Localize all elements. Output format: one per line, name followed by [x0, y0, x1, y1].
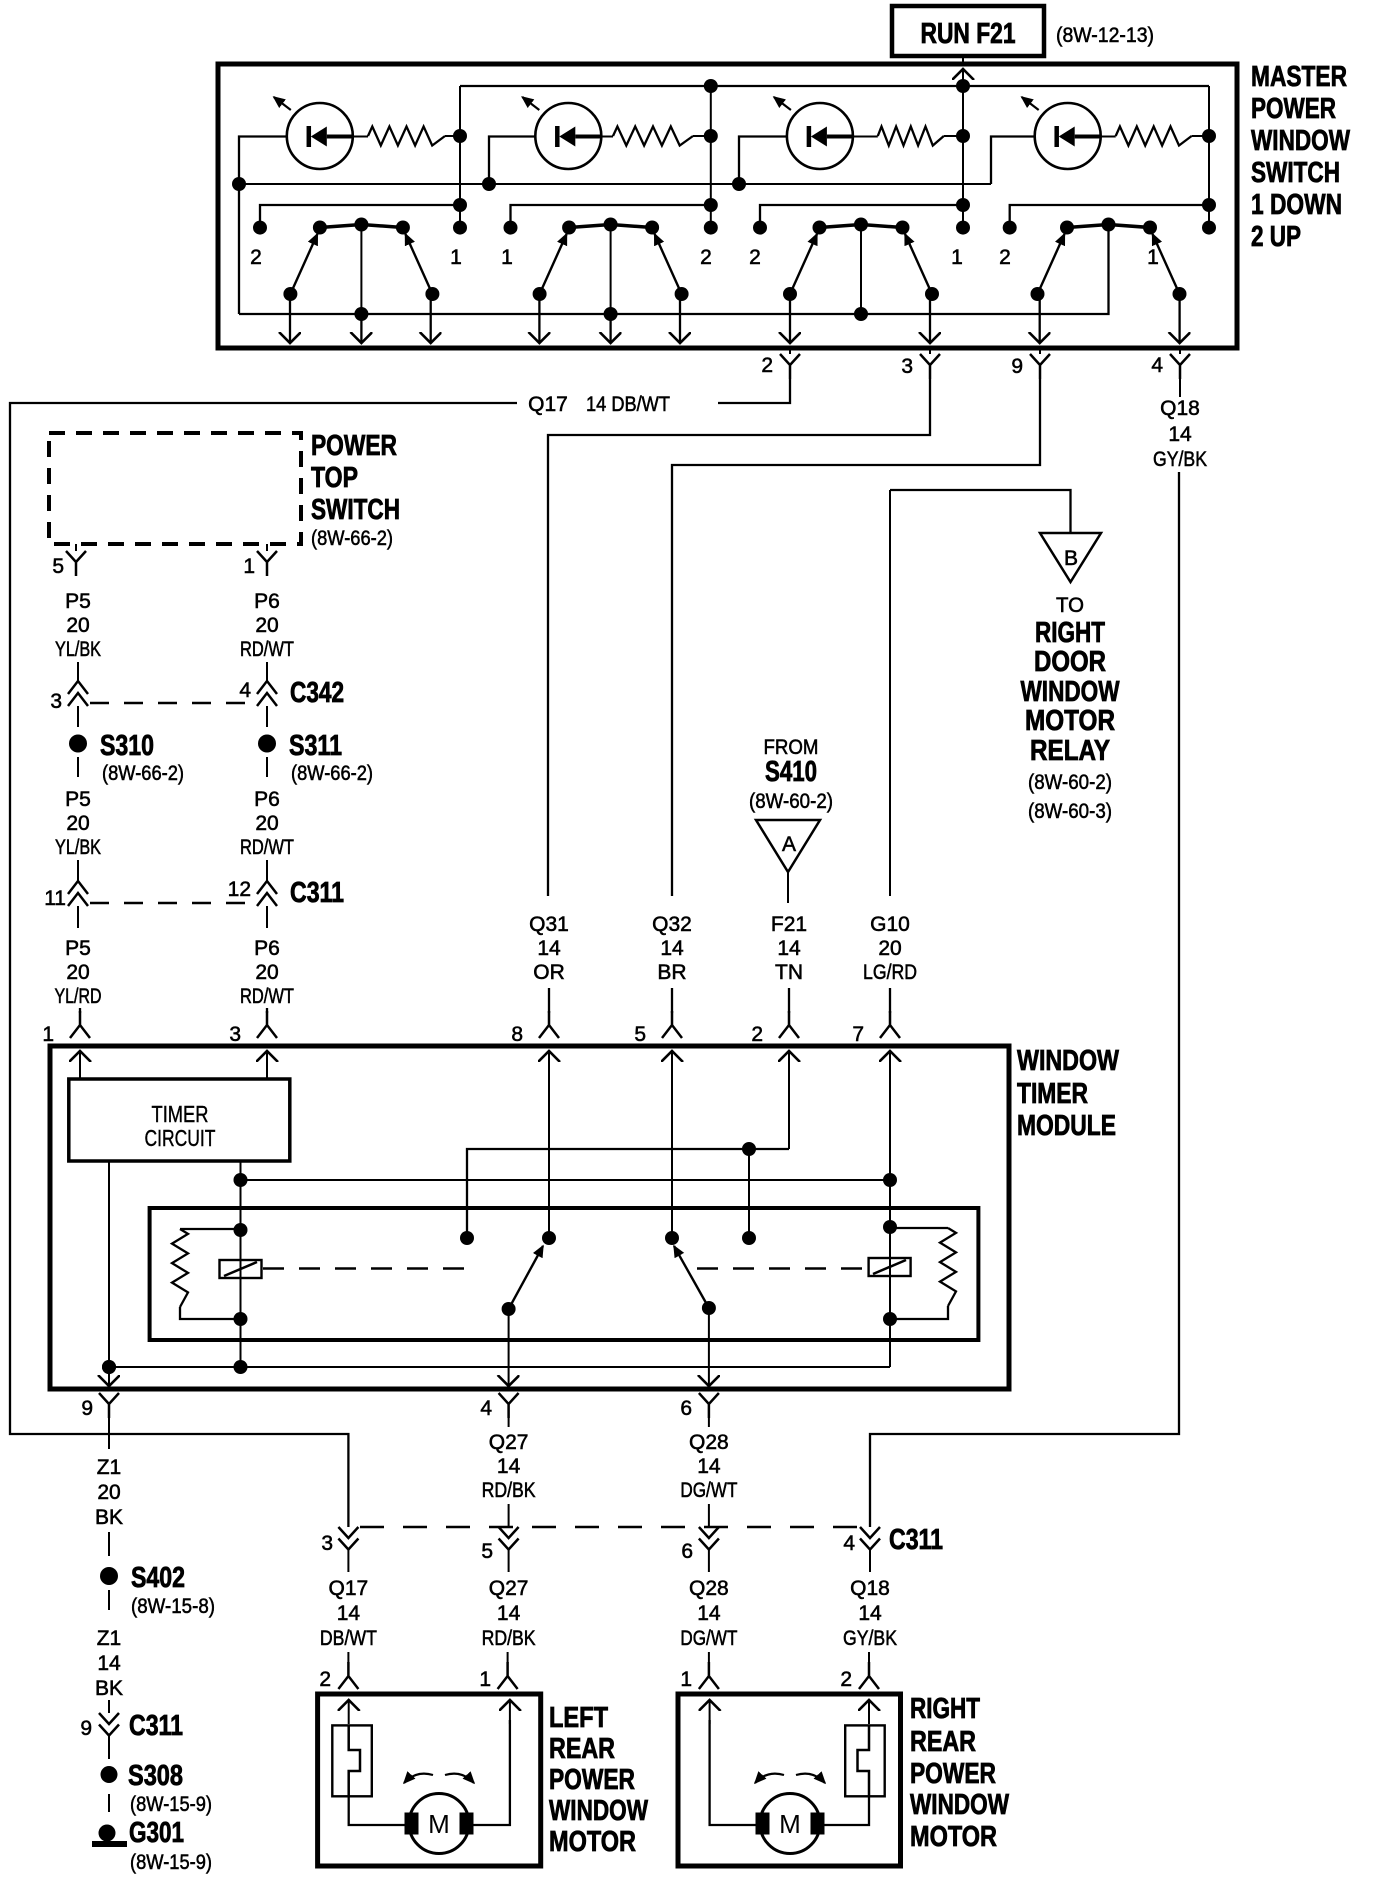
switch S1 centre wire: [360, 225, 362, 315]
wire Q18 down right side: [870, 472, 1179, 1527]
relay K1 switch pole: [502, 1302, 516, 1316]
wire Q32 from pin 9: [672, 379, 1040, 896]
junction: [956, 129, 970, 143]
svg-text:14: 14: [697, 1602, 721, 1625]
LED L1 indicator lamp: [287, 103, 353, 169]
wire Q17 to left margin: [10, 403, 517, 1527]
wire G10 drop: [889, 490, 891, 896]
LED L4 arrow: [1022, 97, 1039, 110]
fuse feed box RUN F21: [892, 6, 1044, 56]
svg-text:2 UP: 2 UP: [1251, 221, 1301, 253]
arrow into motor pin 1: [709, 1700, 711, 1724]
relay K2 switch pole: [702, 1301, 716, 1315]
svg-text:C311: C311: [290, 877, 344, 909]
junction: [234, 1223, 248, 1237]
wire LED4 left drop: [991, 137, 1035, 185]
wire module pin 6 output: [708, 1308, 710, 1386]
svg-text:3: 3: [229, 1023, 241, 1046]
wire LED return bus: [239, 183, 991, 185]
junction: [742, 1142, 756, 1156]
window lift drive symbol: [332, 1725, 372, 1796]
svg-text:RD/WT: RD/WT: [240, 985, 294, 1008]
wire P5 below C311: [77, 906, 79, 928]
svg-text:4: 4: [843, 1532, 855, 1555]
svg-text:1 DOWN: 1 DOWN: [1251, 189, 1342, 221]
svg-text:CIRCUIT: CIRCUIT: [145, 1125, 216, 1151]
wire connector C311 mate (dashed): [360, 1526, 858, 1528]
svg-text:20: 20: [66, 961, 89, 984]
junction: [482, 177, 496, 191]
wire P6 below C311: [266, 906, 268, 928]
wire resistor to feed: [944, 135, 963, 137]
wire feed vertical cell3 RUN F21: [962, 86, 964, 228]
svg-text:P5: P5: [65, 788, 91, 811]
svg-text:TIMER: TIMER: [1017, 1078, 1088, 1110]
output arrow cell2 left: [538, 294, 540, 343]
svg-text:RUN F21: RUN F21: [921, 18, 1016, 50]
wire Z1: [108, 1700, 110, 1713]
svg-text:F21: F21: [771, 913, 807, 936]
svg-text:DOOR: DOOR: [1034, 646, 1106, 678]
wire pin1 to motor M2: [710, 1720, 756, 1825]
splice S311: [258, 735, 276, 753]
junction: [102, 1360, 116, 1374]
svg-text:MODULE: MODULE: [1017, 1110, 1116, 1142]
svg-text:(8W-60-2): (8W-60-2): [749, 790, 833, 813]
svg-text:WINDOW: WINDOW: [1021, 676, 1120, 708]
wire P5: [77, 860, 79, 881]
svg-text:5: 5: [52, 555, 64, 578]
wire to motor M2: [824, 1796, 869, 1825]
contact 2 cell1: [253, 221, 267, 235]
connector pin 8 of timer module: [539, 1011, 559, 1038]
wire P5 below C342: [77, 706, 79, 727]
svg-text:G301: G301: [129, 1817, 184, 1849]
svg-text:REAR: REAR: [549, 1733, 615, 1765]
svg-text:2: 2: [761, 354, 773, 377]
window timer module box: [50, 1046, 1009, 1389]
arrow into motor pin 1: [509, 1700, 511, 1724]
wire switch common bus: [239, 225, 1109, 315]
label circuit P6 20 RD/WT: [240, 590, 294, 661]
connector pin 7 of timer module: [880, 1011, 900, 1038]
svg-text:20: 20: [878, 937, 901, 960]
svg-text:Q17: Q17: [329, 1577, 369, 1600]
wire below S308: [108, 1794, 110, 1812]
wire to module pin: [671, 988, 673, 1013]
junction: [234, 1360, 248, 1374]
svg-text:GY/BK: GY/BK: [1153, 448, 1207, 471]
svg-text:Z1: Z1: [97, 1456, 122, 1479]
svg-text:9: 9: [1011, 355, 1023, 378]
power top switch box (dashed): [49, 433, 301, 544]
wire pin1 to motor M1: [474, 1720, 510, 1825]
connector pin 5 of timer module: [662, 1011, 682, 1038]
splice S310: [69, 735, 87, 753]
svg-text:REAR: REAR: [910, 1726, 976, 1758]
switch S3 right pole: [925, 287, 939, 301]
LED L4 indicator lamp: [1035, 103, 1101, 169]
svg-text:(8W-15-8): (8W-15-8): [131, 1595, 215, 1618]
switch S1 right pole: [425, 287, 439, 301]
svg-text:6: 6: [681, 1540, 693, 1563]
switch S2 left arm: [540, 234, 567, 294]
svg-text:GY/BK: GY/BK: [843, 1627, 897, 1650]
wire resistor to coil bottom: [890, 1306, 948, 1319]
svg-text:14: 14: [1168, 423, 1192, 446]
svg-text:(8W-15-9): (8W-15-9): [130, 1793, 212, 1816]
splice S308: [101, 1766, 118, 1783]
wire Q28 from module pin 6: [708, 1418, 710, 1427]
label circuit Q28 14 DG/WT: [680, 1577, 737, 1650]
svg-text:14: 14: [777, 937, 801, 960]
contact node: [542, 1231, 556, 1245]
svg-text:BK: BK: [95, 1506, 123, 1529]
wire LED to resistor: [853, 136, 878, 138]
svg-text:(8W-15-9): (8W-15-9): [130, 1851, 212, 1874]
svg-text:TIMER: TIMER: [152, 1101, 209, 1127]
timer circuit box: [69, 1079, 290, 1161]
junction: [704, 129, 718, 143]
rotation arrow right: [445, 1774, 474, 1783]
svg-text:2: 2: [751, 1023, 763, 1046]
relay K2 actuation link (dashed): [697, 1267, 867, 1269]
wire resistor to feed: [1192, 135, 1209, 137]
svg-text:(8W-60-2): (8W-60-2): [1028, 771, 1112, 794]
svg-text:(8W-60-3): (8W-60-3): [1028, 800, 1112, 823]
arrow into module pin 1: [79, 1051, 81, 1079]
wire contact feed cell2: [511, 205, 711, 227]
svg-text:OR: OR: [533, 961, 565, 984]
svg-text:B: B: [1064, 547, 1078, 570]
svg-text:20: 20: [66, 812, 89, 835]
relay K1 switch arm: [509, 1246, 543, 1309]
svg-text:RD/WT: RD/WT: [240, 836, 294, 859]
wire contact feed cell4: [1010, 205, 1209, 227]
svg-text:P6: P6: [254, 788, 280, 811]
svg-text:7: 7: [852, 1023, 864, 1046]
svg-text:TN: TN: [775, 961, 803, 984]
svg-text:S311: S311: [289, 730, 342, 762]
LED L1 arrow: [274, 97, 291, 110]
label MASTER POWER WINDOW SWITCH 1 DOWN 2 UP: [1251, 61, 1350, 253]
connector pin 1 of left motor: [507, 1652, 509, 1663]
svg-text:1: 1: [42, 1023, 54, 1046]
svg-text:(8W-12-13): (8W-12-13): [1056, 24, 1154, 47]
connector pin 3 of master switch: [929, 347, 931, 354]
svg-text:RD/BK: RD/BK: [482, 1627, 536, 1650]
svg-text:4: 4: [480, 1397, 492, 1420]
window lift drive symbol: [845, 1725, 885, 1796]
connector C342 pin 4: [257, 681, 277, 694]
wire to module pin: [889, 988, 891, 1013]
junction: [453, 198, 467, 212]
wire module pin 8 to switch contact: [548, 1051, 550, 1238]
connector C311 pin 11: [68, 881, 88, 894]
svg-text:20: 20: [97, 1481, 120, 1504]
wire P6 below C342: [266, 706, 268, 727]
junction on common bus: [354, 307, 368, 321]
connector C311 pin 6: [699, 1527, 719, 1538]
junction on common bus: [854, 307, 868, 321]
svg-text:2: 2: [319, 1668, 331, 1691]
wire LED1 left drop: [239, 137, 287, 315]
wire Q28: [708, 1504, 710, 1527]
wire relay control link: [241, 1179, 891, 1181]
junction: [956, 198, 970, 212]
connector pin 5 of power top switch: [75, 544, 77, 551]
junction: [732, 177, 746, 191]
svg-text:S308: S308: [128, 1760, 183, 1792]
svg-text:20: 20: [66, 614, 89, 637]
label circuit Q28 14 DG/WT: [680, 1431, 737, 1502]
connector pin 2 of timer module: [779, 1011, 799, 1038]
relay coil K2 box: [869, 1258, 911, 1276]
label WINDOW TIMER MODULE: [1017, 1045, 1119, 1142]
wire LED to resistor: [1101, 136, 1116, 138]
output arrow pin3: [929, 294, 931, 343]
svg-text:2: 2: [999, 246, 1011, 269]
junction: [1202, 129, 1216, 143]
wire Q27: [508, 1504, 510, 1527]
rotation arrow left: [755, 1774, 784, 1783]
svg-text:BR: BR: [657, 961, 686, 984]
splice S402: [100, 1567, 118, 1585]
svg-text:MOTOR: MOTOR: [1025, 705, 1115, 737]
output arrow cell1 left: [289, 294, 291, 343]
svg-text:20: 20: [255, 961, 278, 984]
junction: [883, 1173, 897, 1187]
switch S4 left arm: [1038, 234, 1065, 294]
wire Q27 from module pin 4: [508, 1418, 510, 1427]
output arrow pin2: [789, 294, 791, 343]
connector pin 2 of master switch: [789, 347, 791, 354]
svg-text:M: M: [779, 1809, 801, 1839]
svg-text:14: 14: [97, 1652, 121, 1675]
svg-text:M: M: [428, 1809, 450, 1839]
wire below S402: [108, 1590, 110, 1610]
svg-text:Q27: Q27: [489, 1577, 529, 1600]
label circuit Q32 14 BR: [652, 913, 692, 984]
svg-text:6: 6: [680, 1397, 692, 1420]
svg-text:SWITCH: SWITCH: [311, 494, 400, 526]
wire G10 to relay reference: [890, 490, 1071, 533]
svg-text:3: 3: [321, 1532, 333, 1555]
svg-text:Z1: Z1: [97, 1627, 122, 1650]
switch S1 left arm: [290, 234, 317, 294]
wire P6: [266, 860, 268, 881]
wire contact feed cell3: [760, 205, 963, 227]
svg-text:BK: BK: [95, 1677, 123, 1700]
arrow into motor pin 2: [868, 1700, 870, 1724]
svg-text:S310: S310: [100, 730, 154, 762]
junction: [883, 1220, 897, 1234]
svg-text:YL/BK: YL/BK: [55, 638, 101, 661]
svg-text:MASTER: MASTER: [1251, 61, 1347, 93]
resistor R5 (coil suppression): [172, 1229, 188, 1307]
switch S2 right pole: [675, 287, 689, 301]
LED L2 arrow: [522, 97, 539, 110]
label Q18 14 GY/BK: [1153, 397, 1207, 471]
svg-text:(8W-66-2): (8W-66-2): [291, 762, 373, 785]
LED L3 arrow: [774, 97, 791, 110]
svg-text:TO: TO: [1056, 594, 1084, 617]
wire coil top to resistor: [180, 1228, 241, 1230]
motor M2: [756, 1794, 825, 1854]
junction on common bus: [604, 307, 618, 321]
svg-text:P5: P5: [65, 937, 91, 960]
LED L3 indicator lamp: [787, 103, 853, 169]
wire LED to resistor: [601, 136, 613, 138]
relay assembly inner box: [150, 1208, 979, 1340]
svg-text:YL/BK: YL/BK: [55, 836, 101, 859]
resistor R1: [368, 127, 445, 146]
left rear power window motor box: [318, 1694, 541, 1866]
switch S2 centre wire: [610, 225, 612, 315]
wire timer to left relay coil: [240, 1161, 242, 1367]
connector pin 4 of master switch: [1179, 347, 1181, 354]
wire Z1: [108, 1532, 110, 1556]
svg-text:1: 1: [1147, 246, 1159, 269]
svg-text:P6: P6: [254, 937, 280, 960]
wire module pin 2 feed: [788, 1051, 790, 1149]
svg-text:1: 1: [951, 246, 963, 269]
connector pin 2 of right motor: [868, 1652, 870, 1663]
switch S1 right arm: [405, 234, 432, 294]
wire timer to ground bus: [108, 1161, 110, 1386]
svg-text:DG/WT: DG/WT: [680, 1627, 737, 1650]
svg-text:G10: G10: [870, 913, 910, 936]
svg-text:9: 9: [80, 1717, 92, 1740]
switch S4 rocker contacts: [1060, 218, 1157, 235]
wire Z1 below C311: [108, 1736, 110, 1759]
svg-text:14: 14: [537, 937, 561, 960]
svg-text:DB/WT: DB/WT: [320, 1627, 377, 1650]
connector pin 9 of timer module: [99, 1393, 119, 1418]
svg-text:WINDOW: WINDOW: [1251, 125, 1350, 157]
switch S4 right arm: [1153, 234, 1180, 294]
switch S4 left pole: [1031, 287, 1045, 301]
svg-text:RD/BK: RD/BK: [482, 1479, 536, 1502]
wire module pin 4 output: [508, 1309, 510, 1386]
wire feed vertical cell2: [710, 86, 712, 228]
wire top supply rail: [460, 85, 1209, 87]
svg-text:S402: S402: [131, 1562, 185, 1594]
junction: [234, 1173, 248, 1187]
contact 2 cell3: [753, 221, 767, 235]
switch S4 right pole: [1173, 287, 1187, 301]
right rear power window motor box: [678, 1694, 901, 1866]
switch S3 left arm: [790, 234, 817, 294]
resistor R6 (coil suppression): [940, 1228, 956, 1306]
wire Q18 from pin 4: [1179, 379, 1181, 397]
svg-text:4: 4: [239, 679, 251, 702]
svg-text:3: 3: [901, 355, 913, 378]
svg-text:14: 14: [337, 1602, 361, 1625]
svg-text:14: 14: [660, 937, 684, 960]
wire P5: [77, 662, 79, 681]
label circuit Q27 14 RD/BK: [482, 1577, 536, 1650]
wire F21 contact feed: [467, 1149, 789, 1238]
wire P6: [266, 662, 268, 681]
resistor R2: [613, 127, 693, 146]
svg-text:C311: C311: [129, 1710, 183, 1742]
svg-text:WINDOW: WINDOW: [910, 1789, 1009, 1821]
connector pin 4 of timer module: [499, 1393, 519, 1418]
svg-text:5: 5: [481, 1540, 493, 1563]
svg-text:P5: P5: [65, 590, 91, 613]
relay K1 actuation link (dashed): [263, 1267, 468, 1269]
output arrow cell1 right: [430, 294, 432, 343]
svg-text:RIGHT: RIGHT: [910, 1693, 980, 1725]
wire F21 from A: [787, 872, 789, 903]
svg-text:(8W-66-2): (8W-66-2): [102, 762, 184, 785]
svg-text:C342: C342: [290, 677, 344, 709]
label circuit P6 20 RD/WT: [240, 788, 294, 859]
svg-text:LEFT: LEFT: [549, 1702, 608, 1734]
connector pin 1 of power top switch: [266, 544, 268, 551]
svg-text:5: 5: [634, 1023, 646, 1046]
svg-text:POWER: POWER: [549, 1764, 635, 1796]
junction: [704, 79, 718, 93]
junction: [232, 177, 246, 191]
switch S1 rocker contacts: [313, 218, 410, 235]
wire contact feed cell1: [260, 205, 460, 227]
wire Q18 below C311: [869, 1550, 871, 1572]
contact 2 cell2: [704, 221, 718, 235]
connector pin 6 of timer module: [699, 1393, 719, 1418]
svg-text:20: 20: [255, 614, 278, 637]
wire feed vertical cell1: [459, 86, 461, 228]
label circuit Q18 14 GY/BK: [843, 1577, 897, 1650]
contact node: [665, 1231, 679, 1245]
wire module pin 5 to switch contact: [671, 1051, 673, 1238]
switch S2 rocker contacts: [562, 218, 659, 235]
connector C311 pin 3: [338, 1527, 358, 1538]
wire below S310: [77, 757, 79, 777]
junction RUN F21 node: [956, 79, 970, 93]
svg-text:1: 1: [450, 246, 462, 269]
switch S3 centre wire: [860, 225, 862, 315]
contact 1 cell1: [453, 221, 467, 235]
wire RUN F21 to master switch: [962, 56, 964, 64]
svg-text:14: 14: [697, 1455, 721, 1478]
junction: [883, 1312, 897, 1326]
label circuit P6 20 RD/WT: [240, 937, 294, 1008]
label circuit Q17 14 DB/WT: [320, 1577, 377, 1650]
svg-text:S410: S410: [765, 756, 817, 788]
switch S2 right arm: [655, 234, 682, 294]
svg-text:SWITCH: SWITCH: [1251, 157, 1340, 189]
svg-text:Q32: Q32: [652, 913, 692, 936]
wire Z1 from module pin 9: [108, 1418, 110, 1449]
label circuit G10 20 LG/RD: [863, 913, 917, 984]
wire LED to resistor: [353, 136, 368, 138]
switch S3 rocker contacts: [813, 218, 910, 235]
svg-text:MOTOR: MOTOR: [549, 1826, 636, 1858]
output arrow cell2 right: [679, 294, 681, 343]
svg-text:POWER: POWER: [1251, 93, 1336, 125]
wire resistor to feed: [693, 135, 711, 137]
connector C311 pin 9: [99, 1713, 119, 1724]
wire connector mate (dashed): [90, 702, 255, 704]
junction: [234, 1312, 248, 1326]
label LEFT REAR POWER WINDOW MOTOR: [549, 1702, 648, 1858]
svg-text:14: 14: [497, 1455, 521, 1478]
label TO RIGHT DOOR WINDOW MOTOR RELAY: [1021, 594, 1120, 823]
svg-text:WINDOW: WINDOW: [1017, 1045, 1119, 1077]
relay K2 switch arm: [674, 1246, 709, 1308]
